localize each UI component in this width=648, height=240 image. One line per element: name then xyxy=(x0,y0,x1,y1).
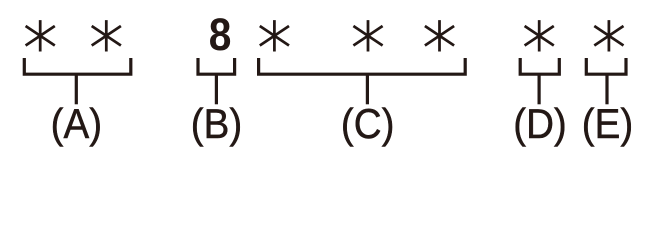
svg-text:(A): (A) xyxy=(51,102,102,148)
svg-text:(E): (E) xyxy=(582,102,633,148)
svg-text:(D): (D) xyxy=(513,102,567,148)
svg-text:(C): (C) xyxy=(341,102,395,148)
svg-text:8: 8 xyxy=(209,10,232,60)
svg-text:(B): (B) xyxy=(191,102,242,148)
